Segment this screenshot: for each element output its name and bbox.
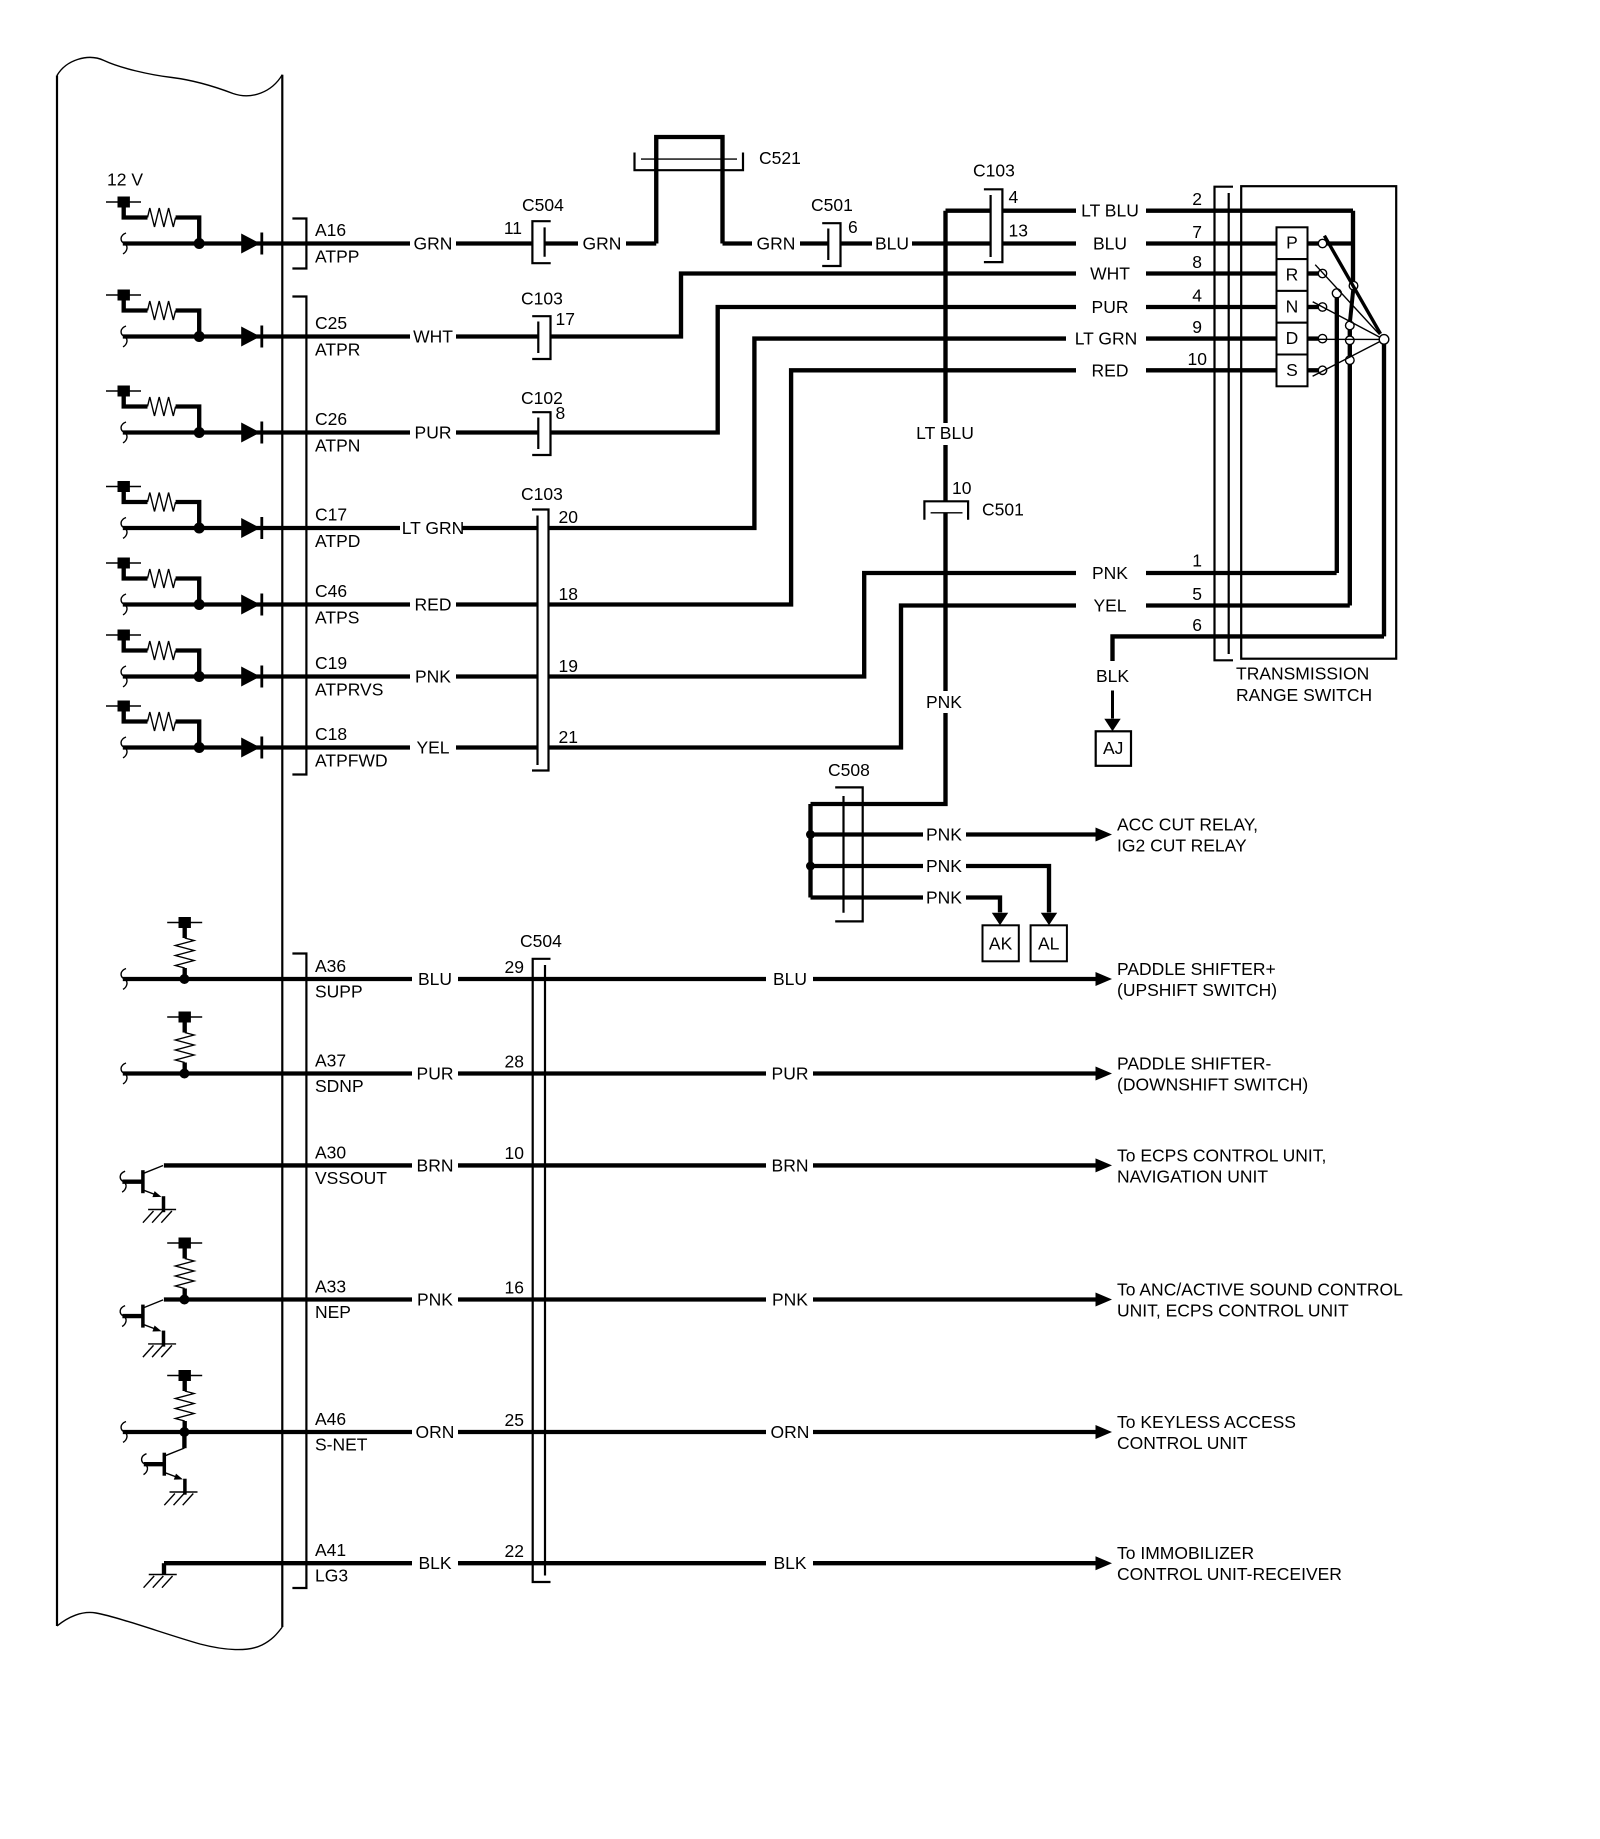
wire C17 pin lead — [123, 526, 400, 530]
power symbol 12V for C26 — [106, 386, 205, 439]
switch wiper ghost line R — [1315, 265, 1379, 335]
wire LT BLU into switch down to wiper joint — [1351, 211, 1355, 282]
svg-text:21: 21 — [559, 727, 578, 747]
diode C25 — [241, 326, 262, 348]
wire LT BLU vertical to C501 pin 10 — [943, 211, 947, 502]
svg-text:A41: A41 — [315, 1540, 346, 1560]
wire A30 row — [164, 1163, 412, 1167]
connector C504 pins 29 28 10 16 25 22 — [533, 959, 551, 1582]
wire A16 pin lead — [123, 241, 410, 245]
arrow to destination — [1096, 972, 1113, 986]
connector C103 pin 17 — [532, 316, 550, 359]
svg-text:8: 8 — [1192, 252, 1202, 272]
svg-text:SUPP: SUPP — [315, 982, 363, 1002]
svg-text:13: 13 — [1009, 221, 1028, 241]
svg-text:To KEYLESS ACCESS: To KEYLESS ACCESS — [1117, 1412, 1296, 1432]
power symbol 12V for C46 — [106, 558, 205, 611]
transistor Q for A46 S-NET — [144, 1448, 198, 1505]
arrow to destination — [1096, 1556, 1113, 1570]
svg-text:11: 11 — [504, 218, 522, 238]
svg-text:LG3: LG3 — [315, 1566, 348, 1586]
svg-text:To ECPS CONTROL UNIT,: To ECPS CONTROL UNIT, — [1117, 1145, 1326, 1165]
connector box AL — [1031, 925, 1067, 961]
svg-text:PNK: PNK — [417, 1290, 453, 1310]
wire C508 row 1 — [811, 802, 863, 806]
diode C26 — [241, 422, 262, 444]
switch link wires — [1350, 290, 1353, 321]
wire RED C103-18 to range switch pin 10 — [456, 370, 1277, 604]
switch position box P — [1277, 227, 1308, 259]
svg-text:C508: C508 — [828, 760, 870, 780]
wire PNK C508 to AK — [811, 898, 1001, 913]
svg-text:6: 6 — [1192, 615, 1202, 635]
svg-text:PNK: PNK — [926, 888, 962, 908]
svg-text:10: 10 — [505, 1143, 525, 1163]
connector C508 — [835, 787, 863, 921]
svg-text:UNIT, ECPS CONTROL UNIT: UNIT, ECPS CONTROL UNIT — [1117, 1301, 1349, 1321]
wire LT BLU to range switch pin 2 — [946, 209, 1354, 213]
wire P contact to common vertical — [1327, 241, 1353, 245]
svg-text:C103: C103 — [521, 484, 563, 504]
svg-text:LT BLU: LT BLU — [1081, 201, 1139, 221]
svg-text:C17: C17 — [315, 505, 347, 525]
wire break curl C25 — [121, 326, 127, 347]
svg-text:RANGE SWITCH: RANGE SWITCH — [1236, 685, 1372, 705]
wire break curl C18 — [121, 737, 127, 758]
svg-text:C501: C501 — [982, 500, 1024, 520]
svg-text:RED: RED — [415, 595, 452, 615]
switch wiper ghost line S — [1313, 342, 1380, 377]
connector box AJ — [1096, 731, 1131, 766]
power symbol 12V for C18 — [106, 701, 205, 754]
svg-text:BRN: BRN — [417, 1155, 454, 1175]
svg-text:18: 18 — [559, 584, 578, 604]
svg-text:GRN: GRN — [414, 234, 453, 254]
svg-text:C504: C504 — [520, 931, 562, 951]
svg-text:ATPRVS: ATPRVS — [315, 680, 383, 700]
svg-text:PNK: PNK — [415, 667, 451, 687]
svg-text:AL: AL — [1038, 934, 1060, 954]
diode C18 — [241, 737, 262, 759]
svg-text:17: 17 — [556, 309, 575, 329]
svg-text:YEL: YEL — [1093, 596, 1126, 616]
svg-text:GRN: GRN — [757, 234, 796, 254]
svg-text:VSSOUT: VSSOUT — [315, 1168, 387, 1188]
svg-text:YEL: YEL — [416, 738, 449, 758]
svg-text:C501: C501 — [811, 195, 853, 215]
switch wiper ghost line N — [1313, 302, 1380, 338]
svg-text:ACC CUT RELAY,: ACC CUT RELAY, — [1117, 815, 1258, 835]
pin bracket A16 — [292, 219, 306, 269]
noise condenser C521 loop — [656, 137, 722, 244]
connector C504 pin 11 — [532, 221, 550, 263]
switch wiper joint circles — [1349, 281, 1358, 290]
switch position box D — [1277, 323, 1308, 355]
svg-text:PADDLE SHIFTER+: PADDLE SHIFTER+ — [1117, 959, 1276, 979]
svg-text:PUR: PUR — [415, 423, 452, 443]
svg-text:CONTROL UNIT-RECEIVER: CONTROL UNIT-RECEIVER — [1117, 1564, 1342, 1584]
svg-text:1: 1 — [1192, 551, 1202, 571]
svg-text:10: 10 — [1188, 349, 1208, 369]
diode C46 — [241, 594, 262, 616]
svg-text:C19: C19 — [315, 653, 347, 673]
connector C501 pin 6 — [822, 223, 840, 266]
svg-text:A37: A37 — [315, 1051, 346, 1071]
arrow to destination — [1096, 1425, 1113, 1439]
svg-text:PNK: PNK — [926, 825, 962, 845]
wire PUR C102-8 to range switch pin 4 — [456, 430, 538, 434]
power symbol and resistor for A33 — [167, 1238, 202, 1305]
wire P contact lead — [1308, 241, 1319, 245]
wire C19 pin lead — [123, 674, 410, 678]
control unit right boundary line — [281, 75, 283, 1627]
transistor Q for A33 NEP — [122, 1300, 176, 1357]
wire BLU C501 to C103 — [841, 241, 873, 245]
svg-text:C25: C25 — [315, 313, 347, 333]
wire PNK C508 to AL — [811, 866, 1050, 912]
svg-text:12 V: 12 V — [107, 170, 143, 190]
wire GRN between C521 and C501 — [723, 241, 753, 245]
svg-text:5: 5 — [1192, 584, 1202, 604]
switch contact circles P R N D S — [1318, 239, 1326, 247]
svg-text:ORN: ORN — [771, 1422, 810, 1442]
svg-text:29: 29 — [505, 957, 524, 977]
wire N contact lead — [1308, 305, 1319, 309]
switch wiper ghost line D — [1311, 338, 1379, 340]
connector C501 pin 10 — [924, 501, 968, 519]
connector bar at transmission range switch — [1215, 187, 1234, 661]
svg-text:RED: RED — [1092, 360, 1129, 380]
svg-text:C46: C46 — [315, 581, 347, 601]
svg-text:ORN: ORN — [416, 1422, 455, 1442]
wire switch pole to pin 6 — [1382, 344, 1386, 636]
wire WHT C103-17 to range switch pin 8 — [456, 334, 538, 338]
svg-text:S-NET: S-NET — [315, 1435, 368, 1455]
wire break curl C26 — [121, 422, 127, 443]
svg-text:BLK: BLK — [418, 1553, 451, 1573]
wire break curl C46 — [121, 594, 127, 615]
svg-text:PUR: PUR — [417, 1064, 454, 1084]
wire break curl C17 — [121, 518, 127, 539]
switch pole circle — [1379, 335, 1389, 345]
svg-text:P: P — [1286, 233, 1298, 253]
diode C19 — [241, 666, 262, 688]
svg-text:2: 2 — [1192, 189, 1202, 209]
svg-text:(DOWNSHIFT SWITCH): (DOWNSHIFT SWITCH) — [1117, 1075, 1308, 1095]
power symbol 12V for C25 — [106, 290, 205, 343]
svg-text:LT GRN: LT GRN — [402, 518, 465, 538]
svg-text:GRN: GRN — [583, 234, 622, 254]
wire C18 pin lead — [123, 745, 410, 749]
wire PNK C508 to ACC cut relay — [811, 832, 1096, 836]
power symbol 12V for C17 — [106, 481, 205, 534]
svg-text:NAVIGATION UNIT: NAVIGATION UNIT — [1117, 1166, 1268, 1186]
wire A36 row — [121, 969, 127, 990]
transistor Q for A30 VSSOUT — [122, 1166, 176, 1223]
diode A16 — [241, 233, 262, 255]
diode C17 — [241, 517, 262, 539]
control unit torn top edge — [57, 57, 282, 95]
power symbol 12V for A16 — [106, 197, 205, 250]
svg-text:WHT: WHT — [1090, 264, 1130, 284]
wire PNK C103-19 to range switch pin 1 — [456, 573, 1337, 677]
svg-text:NEP: NEP — [315, 1302, 351, 1322]
svg-text:C521: C521 — [759, 148, 801, 168]
svg-text:WHT: WHT — [413, 327, 453, 347]
svg-text:AJ: AJ — [1103, 738, 1123, 758]
connector C102 pin 8 — [532, 412, 550, 455]
svg-text:ATPR: ATPR — [315, 340, 360, 360]
arrow to destination — [1096, 1067, 1113, 1081]
wire break curl A16 — [121, 233, 127, 254]
svg-text:ATPS: ATPS — [315, 608, 359, 628]
svg-text:To IMMOBILIZER: To IMMOBILIZER — [1117, 1543, 1254, 1563]
switch position box N — [1277, 291, 1308, 323]
power symbol and resistor for A46 — [167, 1370, 202, 1437]
power symbol and resistor for A37 — [167, 1012, 202, 1079]
control unit torn bottom edge — [57, 1612, 282, 1649]
svg-text:A46: A46 — [315, 1409, 346, 1429]
svg-text:8: 8 — [556, 403, 566, 423]
svg-text:C504: C504 — [522, 195, 564, 215]
svg-text:D: D — [1286, 328, 1299, 348]
svg-text:PADDLE SHIFTER-: PADDLE SHIFTER- — [1117, 1054, 1271, 1074]
svg-text:9: 9 — [1192, 317, 1202, 337]
wire PNK C501-10 down to C508 — [863, 513, 946, 804]
svg-text:6: 6 — [848, 217, 858, 237]
transmission range switch box — [1241, 186, 1396, 659]
svg-text:LT GRN: LT GRN — [1075, 329, 1138, 349]
svg-text:4: 4 — [1192, 286, 1202, 306]
connector C103 pins 4 and 13 — [984, 189, 1003, 262]
switch position box R — [1277, 259, 1308, 291]
connector box AK — [983, 925, 1019, 961]
svg-text:SDNP: SDNP — [315, 1076, 364, 1096]
svg-text:BLU: BLU — [773, 969, 807, 989]
svg-text:PNK: PNK — [926, 856, 962, 876]
svg-text:PNK: PNK — [926, 692, 962, 712]
svg-text:16: 16 — [505, 1277, 524, 1297]
svg-text:PUR: PUR — [772, 1064, 809, 1084]
power symbol and resistor for A36 — [167, 917, 202, 984]
ground for A41 LG3 — [162, 1563, 166, 1574]
svg-text:ATPD: ATPD — [315, 531, 360, 551]
wire A41 row — [164, 1561, 412, 1565]
wire BLK range switch pin 6 to AJ — [1113, 636, 1385, 661]
wire S contact lead — [1308, 368, 1319, 372]
svg-text:BLU: BLU — [875, 234, 909, 254]
switch position box S — [1277, 355, 1308, 387]
svg-text:28: 28 — [505, 1051, 524, 1071]
svg-text:A36: A36 — [315, 956, 346, 976]
C508 left bus wire — [808, 804, 812, 898]
svg-text:4: 4 — [1009, 187, 1019, 207]
wire BLU C103 to range switch pin 7 — [1002, 241, 1276, 245]
svg-text:R: R — [1286, 265, 1299, 285]
arrow to destination — [1096, 1158, 1113, 1172]
svg-text:ATPP: ATPP — [315, 247, 359, 267]
svg-text:PNK: PNK — [772, 1290, 808, 1310]
wire C46 pin lead — [123, 602, 410, 606]
svg-text:22: 22 — [505, 1541, 524, 1561]
connector C521 symbol — [635, 153, 744, 171]
svg-text:19: 19 — [559, 656, 578, 676]
wire GRN A16 to C504 — [456, 241, 578, 245]
svg-text:PNK: PNK — [1092, 563, 1128, 583]
svg-text:BLK: BLK — [773, 1553, 806, 1573]
wire C25 pin lead — [123, 334, 410, 338]
svg-text:CONTROL UNIT: CONTROL UNIT — [1117, 1433, 1248, 1453]
svg-text:C26: C26 — [315, 409, 347, 429]
svg-text:A16: A16 — [315, 220, 346, 240]
svg-text:20: 20 — [559, 507, 579, 527]
svg-text:N: N — [1286, 296, 1299, 316]
svg-text:BLU: BLU — [418, 969, 452, 989]
svg-text:PUR: PUR — [1092, 297, 1129, 317]
svg-text:IG2 CUT RELAY: IG2 CUT RELAY — [1117, 836, 1247, 856]
svg-text:BRN: BRN — [772, 1155, 809, 1175]
svg-text:A33: A33 — [315, 1277, 346, 1297]
svg-text:A30: A30 — [315, 1142, 346, 1162]
svg-text:To ANC/ACTIVE SOUND CONTROL: To ANC/ACTIVE SOUND CONTROL — [1117, 1280, 1403, 1300]
svg-text:C18: C18 — [315, 724, 347, 744]
wire LT GRN C103-20 to range switch pin 9 — [462, 339, 1277, 528]
connector C103 pins 20 18 19 21 — [532, 510, 549, 771]
arrow to destination — [1096, 1293, 1113, 1307]
svg-text:AK: AK — [989, 934, 1013, 954]
svg-text:25: 25 — [505, 1410, 524, 1430]
control unit left boundary line — [56, 76, 58, 1627]
wire A46 row — [121, 1422, 127, 1443]
svg-text:(UPSHIFT SWITCH): (UPSHIFT SWITCH) — [1117, 980, 1277, 1000]
svg-text:BLU: BLU — [1093, 234, 1127, 254]
svg-text:C103: C103 — [521, 289, 563, 309]
wire A37 row — [121, 1063, 127, 1084]
wire switch common to pin 1 — [1335, 298, 1339, 573]
wire C26 pin lead — [123, 430, 410, 434]
junction dots C508 bus — [806, 830, 815, 839]
svg-text:TRANSMISSION: TRANSMISSION — [1236, 664, 1369, 684]
wire R contact lead — [1308, 271, 1319, 275]
svg-text:10: 10 — [952, 478, 972, 498]
pin bracket C25..C18 group — [292, 297, 306, 775]
svg-text:C103: C103 — [973, 161, 1015, 181]
wire A33 row — [164, 1297, 412, 1301]
svg-text:ATPFWD: ATPFWD — [315, 751, 388, 771]
svg-text:ATPN: ATPN — [315, 436, 360, 456]
wire A46 collector riser — [182, 1432, 186, 1448]
wire D contact lead — [1308, 336, 1319, 340]
power symbol 12V for C19 — [106, 630, 205, 683]
wire YEL C103-21 to range switch pin 5 — [456, 606, 1350, 748]
switch wiper arm at P — [1324, 236, 1380, 334]
wire break curl C19 — [121, 666, 127, 687]
svg-text:LT BLU: LT BLU — [916, 423, 974, 443]
svg-text:S: S — [1286, 360, 1298, 380]
svg-text:BLK: BLK — [1096, 666, 1129, 686]
pin bracket A36..A41 group — [292, 954, 306, 1589]
svg-text:7: 7 — [1192, 222, 1202, 242]
